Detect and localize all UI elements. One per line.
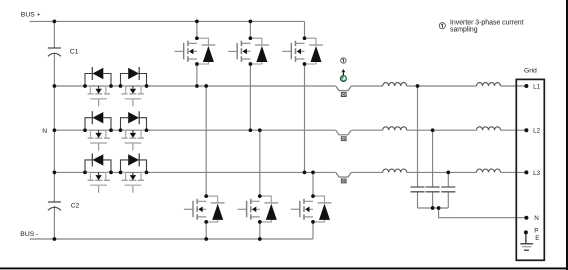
ammeter probe (green circle) [340, 76, 346, 82]
wire row B [54, 129, 526, 131]
probe arrow above ammeter [342, 69, 346, 75]
wire filter cap drop phase A [417, 86, 419, 208]
current sensor shunt phase A [336, 86, 352, 97]
node BUS+ / phase B junction [249, 20, 253, 24]
node filter cap tap phase A [416, 84, 420, 88]
node phase C midpoint junctions [303, 171, 307, 175]
capacitor C1 [48, 48, 79, 56]
svg-text:sampling: sampling [450, 27, 478, 34]
svg-text:L2: L2 [533, 128, 541, 135]
node BUS+ / C1 junction [53, 20, 57, 24]
node BUS- / phase A junction [204, 237, 208, 241]
transistor Q4 bottom switch phase A with body diode [184, 194, 225, 224]
svg-text:N: N [534, 215, 539, 222]
transistor Q7 bidirectional switch row A left MOSFET+diode [83, 67, 113, 106]
legend circled 1 [439, 23, 445, 29]
svg-text:N: N [42, 128, 47, 135]
wire phase C bottom vertical [312, 172, 314, 239]
ground symbol [520, 232, 533, 250]
svg-text:L3: L3 [533, 170, 541, 177]
transistor Q1 top switch phase A with body diode [175, 36, 216, 66]
wire phase B bottom vertical [259, 130, 261, 239]
wire row A (N to phase A output) [54, 85, 526, 87]
capacitor C2 [48, 202, 80, 210]
svg-text:C2: C2 [71, 203, 80, 210]
node N bus row B junction [53, 128, 57, 132]
capacitor filter phase A [411, 187, 425, 192]
transistor Q6 bottom switch phase C with body diode [291, 194, 332, 224]
terminal L2 [524, 128, 540, 135]
annotation marker circled 1 above phase A sensor [341, 58, 346, 63]
wire phase A bottom vertical [205, 86, 207, 239]
svg-text:L1: L1 [533, 84, 541, 91]
node phase A midpoint junctions [195, 84, 199, 88]
current sensor shunt phase B [336, 130, 352, 141]
wire phase B top vertical [249, 21, 251, 130]
wire DC-link bus vertical (N bus) [53, 21, 55, 239]
node BUS- / C2 junction [53, 237, 57, 241]
node filter cap tap phase B [431, 128, 435, 132]
wire phase A top vertical (BUS+ to switch, switch to row) [196, 21, 198, 86]
transistor Q3 top switch phase C with body diode [282, 36, 323, 66]
transistor Q9 bidirectional switch row B left MOSFET+diode [83, 111, 113, 150]
capacitor filter phase B [426, 187, 440, 192]
transistor Q10 bidirectional switch row B right MOSFET+diode [119, 111, 149, 150]
node N bus row A junction [53, 84, 57, 88]
wire phase C top vertical [304, 21, 306, 172]
node N bus row C junction [53, 171, 57, 175]
wire filter cap drop phase B [432, 130, 434, 208]
svg-text:Inverter 3-phase current: Inverter 3-phase current [450, 19, 524, 26]
transistor Q8 bidirectional switch row A right MOSFET+diode [119, 67, 149, 106]
wire BUS+ rail [30, 20, 305, 22]
wire neutral tap to grid N [439, 208, 527, 218]
terminal L1 [524, 84, 540, 91]
wire row C [54, 171, 526, 173]
node BUS+ / phase A junction [195, 20, 199, 24]
svg-text:BUS +: BUS + [21, 11, 41, 18]
terminal L3 [524, 170, 540, 177]
node BUS- / phase B junction [258, 237, 262, 241]
terminal P E [524, 228, 540, 242]
wire BUS- rail [30, 238, 313, 240]
transistor Q12 bidirectional switch row C right MOSFET+diode [119, 153, 149, 192]
inductor L filter stage 2 phase A [477, 83, 501, 86]
node phase B midpoint junctions [249, 128, 253, 132]
wire filter cap drop phase C [447, 172, 449, 208]
inductor L filter stage 2 phase B [477, 127, 501, 130]
svg-text:E: E [535, 235, 539, 242]
svg-text:Grid: Grid [524, 68, 537, 75]
grid box [516, 79, 544, 260]
figure border right [566, 0, 568, 270]
current sensor shunt phase C [336, 172, 352, 183]
terminal N [524, 215, 539, 222]
node cap bus junctions [431, 206, 435, 210]
transistor Q11 bidirectional switch row C left MOSFET+diode [83, 153, 113, 192]
svg-text:BUS -: BUS - [20, 231, 38, 238]
svg-text:C1: C1 [70, 48, 79, 55]
inductor L filter stage 2 phase C [477, 169, 501, 172]
node filter cap tap phase C [446, 171, 450, 175]
transistor Q5 bottom switch phase B with body diode [237, 194, 278, 224]
inductor L filter stage 1 phase A [383, 83, 407, 86]
wire capacitor common bus [418, 207, 449, 209]
svg-text:P: P [534, 228, 538, 235]
inductor L filter stage 1 phase C [383, 169, 407, 172]
transistor Q2 top switch phase B with body diode [228, 36, 269, 66]
capacitor filter phase C [441, 187, 455, 192]
figure border bottom [0, 267, 568, 269]
inductor L filter stage 1 phase B [383, 127, 407, 130]
